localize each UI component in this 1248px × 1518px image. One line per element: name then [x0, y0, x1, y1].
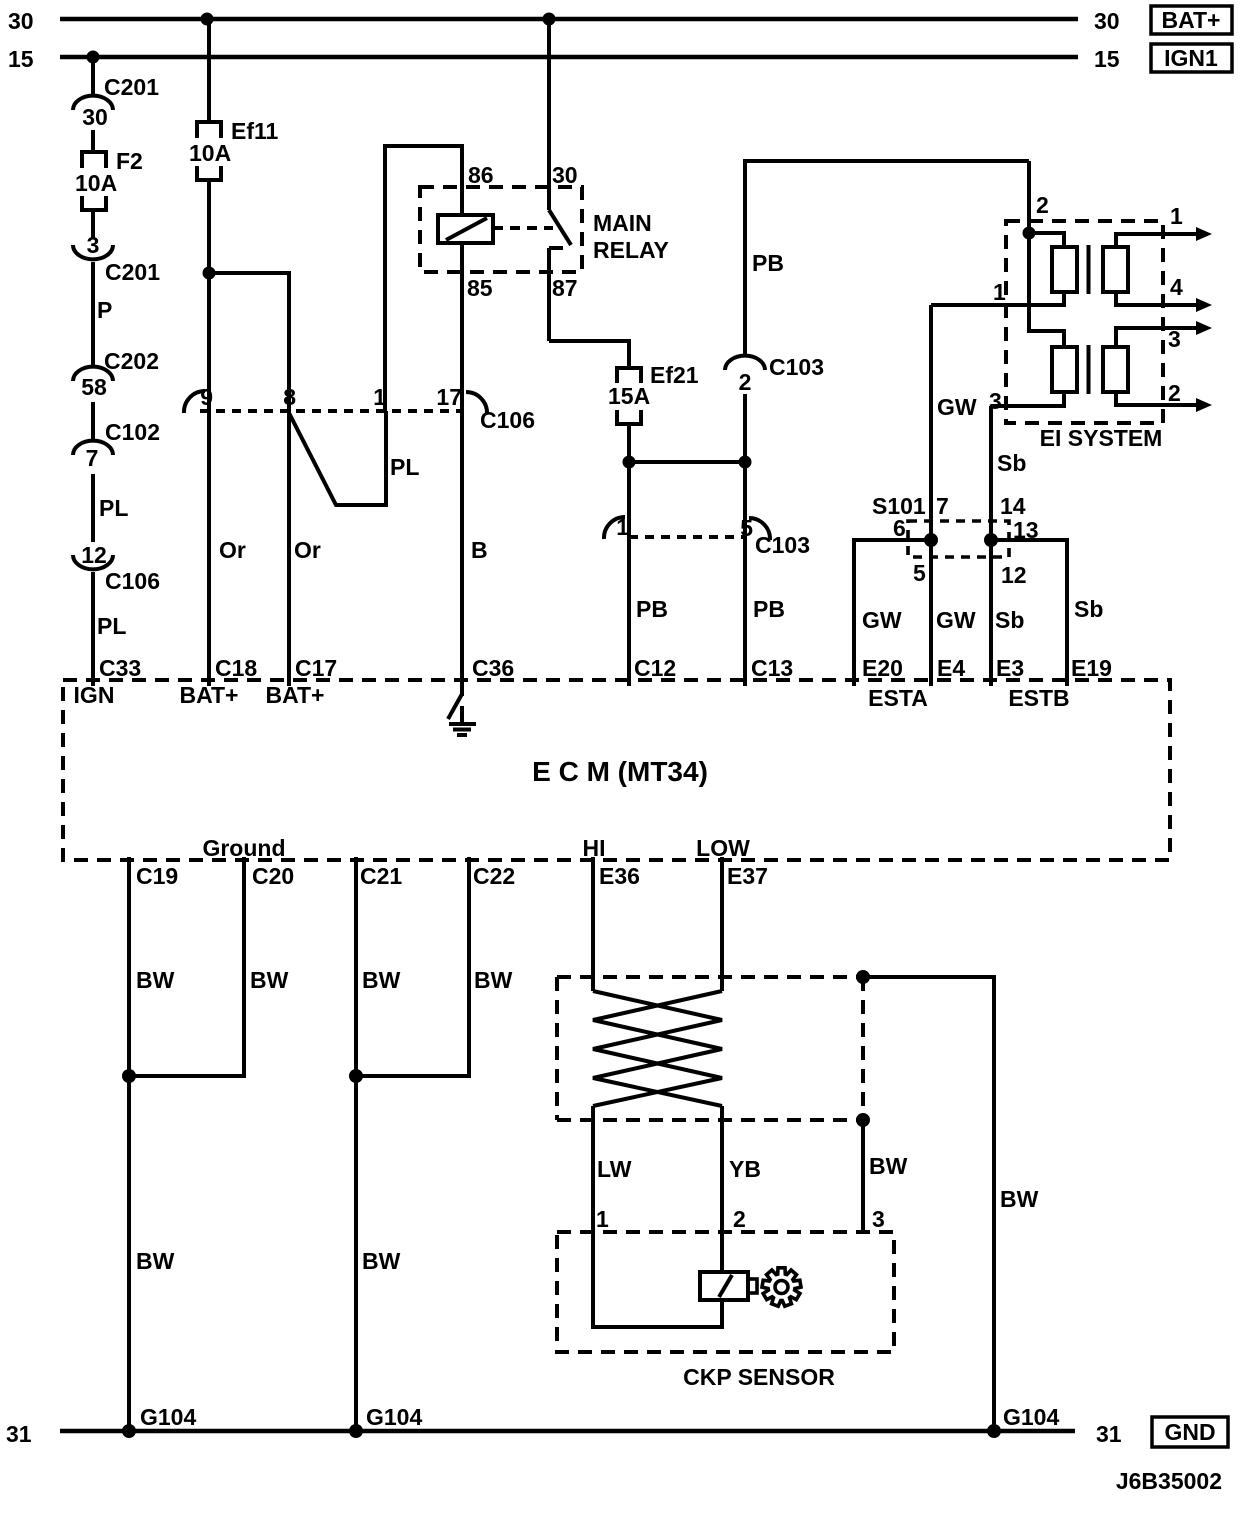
wire coil1 primary to EI pin 1 [931, 292, 1064, 305]
svg-text:C202: C202 [104, 348, 159, 374]
wire label B: C106-17 to ECM C36 [460, 411, 464, 683]
wire GW: S101 to ECM E4 [929, 540, 933, 686]
svg-text:P: P [97, 297, 112, 323]
wire BW: shield to G104 [863, 977, 994, 1431]
wire C106-1 up and over to relay coil 86 [385, 146, 462, 411]
wire jog C106-8 to C106-1 lower side [289, 411, 386, 505]
svg-text:BW: BW [136, 1248, 175, 1274]
svg-text:31: 31 [1096, 1421, 1122, 1447]
wire CKP pin 1 to sensor coil [593, 1232, 722, 1327]
wire PB: C103-1 to ECM C12 [627, 537, 631, 686]
wire BW: C22 joins C21 [356, 857, 469, 1076]
svg-text:ESTA: ESTA [868, 685, 928, 711]
svg-text:RELAY: RELAY [593, 237, 669, 263]
junction dot Ef11 branch [203, 267, 216, 280]
svg-text:3: 3 [872, 1206, 885, 1232]
svg-text:7: 7 [86, 445, 99, 471]
svg-text:BW: BW [362, 967, 401, 993]
svg-text:GW: GW [936, 607, 976, 633]
svg-text:1: 1 [596, 1206, 609, 1232]
svg-text:PB: PB [753, 596, 785, 622]
svg-text:C106: C106 [105, 568, 160, 594]
svg-text:Sb: Sb [997, 450, 1026, 476]
ground symbol at C36 [448, 683, 476, 735]
svg-text:5: 5 [913, 560, 926, 586]
relay switch blade [549, 210, 571, 245]
ignition coil 1 primary [1052, 247, 1077, 292]
wire junction to C103 row pin 5 [743, 462, 747, 537]
arrow spark 2 [1196, 398, 1212, 412]
svg-text:F2: F2 [116, 148, 143, 174]
wire LW to CKP pin 1 [591, 1106, 595, 1232]
svg-text:2: 2 [1168, 380, 1181, 406]
svg-text:3: 3 [87, 232, 100, 258]
svg-text:G104: G104 [1003, 1404, 1059, 1430]
wire PL: C102-7 to C106-12 [91, 474, 95, 542]
GND box [1152, 1417, 1228, 1447]
svg-text:C19: C19 [136, 863, 178, 889]
connector C103 row pins 1 5 [604, 514, 810, 558]
wire coil2 primary to EI pin 3 [991, 392, 1064, 406]
bus 30 (BAT+) [60, 17, 1078, 22]
svg-text:Sb: Sb [995, 607, 1024, 633]
wire coil1 secondary to spark 4 [1116, 292, 1198, 305]
junction dot G104 shield [987, 1424, 1001, 1438]
junction dot S101 left [924, 533, 938, 547]
wire Sb: S101 to ECM E19 [991, 540, 1067, 686]
svg-text:E37: E37 [727, 863, 768, 889]
svg-text:6: 6 [893, 515, 906, 541]
svg-text:PL: PL [99, 495, 128, 521]
wire C202-58 to C102-7 [91, 402, 95, 442]
svg-text:14: 14 [1000, 493, 1026, 519]
svg-text:Sb: Sb [1074, 596, 1103, 622]
svg-text:2: 2 [1036, 192, 1049, 218]
svg-text:BW: BW [1000, 1186, 1039, 1212]
svg-text:E36: E36 [599, 863, 640, 889]
svg-text:IGN1: IGN1 [1164, 45, 1218, 71]
svg-text:C20: C20 [252, 863, 294, 889]
svg-text:ESTB: ESTB [1008, 685, 1069, 711]
svg-text:17: 17 [436, 384, 462, 410]
fuse Ef11 10A [189, 118, 279, 180]
wire junction to C103 row pin 1 [627, 462, 631, 537]
shield dashed box [557, 977, 863, 1120]
svg-text:BW: BW [362, 1248, 401, 1274]
svg-text:C201: C201 [104, 74, 159, 100]
wire bus30 to relay switch 30 [547, 19, 551, 210]
svg-text:PB: PB [636, 596, 668, 622]
svg-text:2: 2 [739, 369, 752, 395]
svg-text:31: 31 [6, 1421, 32, 1447]
wire PB: EI feed to C103 pin 2 [745, 161, 1029, 357]
wire relay 87 to Ef21 [549, 341, 629, 367]
svg-text:Or: Or [294, 537, 321, 563]
wire bus30 to fuse Ef11 [207, 19, 211, 121]
ignition coil 2 secondary [1103, 347, 1128, 392]
wire branch to C106 pin 8 [209, 273, 289, 411]
wire C201-30 to fuse F2 [91, 130, 95, 151]
wire junction to junction [629, 460, 745, 464]
junction dot C19/C20 [122, 1069, 136, 1083]
svg-text:30: 30 [1094, 8, 1120, 34]
bus 15 (IGN1) [60, 55, 1078, 60]
svg-text:E19: E19 [1071, 655, 1112, 681]
connector C102 pin 7 [73, 419, 160, 471]
relay coil [438, 215, 493, 243]
CKP sensor dashed box [557, 1232, 894, 1352]
IGN1 box [1151, 44, 1232, 72]
svg-text:BW: BW [136, 967, 175, 993]
svg-text:C33: C33 [99, 655, 141, 681]
svg-text:C21: C21 [360, 863, 402, 889]
svg-text:30: 30 [82, 104, 108, 130]
svg-text:BAT+: BAT+ [1162, 7, 1221, 33]
BAT+ box [1151, 6, 1232, 34]
svg-text:7: 7 [936, 493, 949, 519]
svg-text:C102: C102 [105, 419, 160, 445]
svg-text:YB: YB [729, 1156, 761, 1182]
junction dot C12 branch [623, 456, 636, 469]
wire BW: shield drain to CKP pin 3 [861, 1120, 865, 1232]
connector C106 pin 12 [73, 542, 160, 594]
coil 2 core [1087, 345, 1091, 394]
wire CKP pin 2 to sensor coil [720, 1232, 724, 1273]
arrow spark 3 [1196, 321, 1212, 335]
svg-text:15: 15 [8, 46, 34, 72]
svg-text:G104: G104 [140, 1404, 196, 1430]
svg-text:9: 9 [200, 384, 213, 410]
coil 1 core [1087, 245, 1091, 294]
wire coil2 secondary to spark 2 [1116, 392, 1198, 405]
svg-text:PL: PL [97, 613, 126, 639]
wire F2 to connector C201-3 [91, 210, 95, 238]
wire to coil1 primary top [1029, 233, 1064, 247]
svg-text:30: 30 [8, 8, 34, 34]
arrow spark 4 [1196, 298, 1212, 312]
relay link (dashed) [493, 226, 553, 230]
arrow spark 1 [1196, 227, 1212, 241]
connector C103 pin 2 [725, 354, 824, 395]
svg-text:PB: PB [752, 250, 784, 276]
wire bus15 to connector C201-30 [91, 57, 95, 97]
svg-text:Ef11: Ef11 [231, 118, 279, 144]
wire Sb: S101 to ECM E3 [989, 540, 993, 686]
wire Ef11 to C106 pin 9 [207, 180, 211, 411]
svg-text:GW: GW [937, 394, 977, 420]
svg-text:1: 1 [1170, 203, 1183, 229]
svg-text:Or: Or [219, 537, 246, 563]
wire GW: EI pin 1 down to S101 [929, 305, 933, 540]
bus 31 (GND) [60, 1429, 1075, 1434]
svg-text:15A: 15A [608, 383, 650, 409]
svg-text:BW: BW [869, 1153, 908, 1179]
svg-text:1: 1 [993, 279, 1006, 305]
junction dot bus30/Ef11 [201, 13, 214, 26]
junction dot C21/C22 [349, 1069, 363, 1083]
svg-text:BAT+: BAT+ [180, 682, 239, 708]
CKP sensor coil [700, 1272, 757, 1300]
svg-text:IGN: IGN [74, 682, 115, 708]
wire Ef21 to junction [627, 424, 631, 462]
junction dot EI pin 2 [1023, 227, 1036, 240]
wire GW: S101 to ECM E20 [854, 540, 931, 686]
svg-text:E3: E3 [996, 655, 1024, 681]
svg-text:12: 12 [1001, 562, 1027, 588]
svg-text:C36: C36 [472, 655, 514, 681]
wire BW: C21 to G104 [354, 857, 358, 1431]
svg-text:BW: BW [474, 967, 513, 993]
junction dot shield bottom right [856, 1113, 870, 1127]
svg-text:J6B35002: J6B35002 [1116, 1468, 1222, 1494]
MAIN RELAY label [593, 210, 669, 263]
connector C201 pin 3 [73, 232, 160, 285]
svg-text:E4: E4 [937, 655, 965, 681]
svg-text:C18: C18 [215, 655, 257, 681]
svg-text:PL: PL [390, 454, 419, 480]
ECM (MT34) dashed box [63, 680, 1170, 860]
svg-text:MAIN: MAIN [593, 210, 652, 236]
svg-text:10A: 10A [189, 140, 231, 166]
svg-text:C13: C13 [751, 655, 793, 681]
svg-text:C17: C17 [295, 655, 337, 681]
fuse Ef21 15A [608, 362, 699, 424]
CKP reluctor gear [762, 1268, 801, 1306]
wire C103-2 to junction [743, 394, 747, 462]
relay contact 87 [549, 248, 563, 341]
wire relay coil 85 down to C106-17 [460, 243, 464, 411]
wire PB: C103-5 to ECM C13 [743, 537, 747, 686]
svg-text:B: B [471, 537, 488, 563]
junction dot bus30/relay30 [543, 13, 556, 26]
splice S101 dashed box [908, 521, 1009, 557]
svg-text:EI SYSTEM: EI SYSTEM [1040, 425, 1163, 451]
wire BW: C20 joins C19 [129, 857, 244, 1076]
svg-text:G104: G104 [366, 1404, 422, 1430]
svg-text:86: 86 [468, 162, 494, 188]
svg-text:12: 12 [81, 542, 107, 568]
svg-text:GND: GND [1164, 1419, 1215, 1445]
svg-text:87: 87 [552, 275, 578, 301]
svg-text:10A: 10A [75, 170, 117, 196]
svg-text:C103: C103 [755, 532, 810, 558]
junction dot S101 right [984, 533, 998, 547]
ignition coil 2 primary [1052, 347, 1077, 392]
svg-text:2: 2 [733, 1206, 746, 1232]
wire Sb: EI pin 3 down to S101 [989, 406, 993, 540]
junction dot C13 branch [739, 456, 752, 469]
svg-text:C106: C106 [480, 407, 535, 433]
twisted pair LW/YB [593, 991, 722, 1106]
wire YB to CKP pin 2 [720, 1106, 724, 1232]
fuse F2 10A [75, 148, 143, 210]
svg-text:15: 15 [1094, 46, 1120, 72]
svg-text:C103: C103 [769, 354, 824, 380]
junction dot bus15/C201 [87, 51, 100, 64]
wire PB down to coil2 [1029, 233, 1064, 347]
wire P: C201-3 to C202-58 [91, 262, 95, 368]
svg-text:LW: LW [597, 1156, 632, 1182]
svg-text:C12: C12 [634, 655, 676, 681]
svg-text:58: 58 [81, 374, 107, 400]
wire Or: C106-8 to ECM C17 [287, 411, 291, 686]
connector C202 pin 58 [73, 348, 159, 400]
wire Or: C106-9 to ECM C18 [207, 411, 211, 686]
junction dot shield top right [856, 970, 870, 984]
junction dot G104 C21 [349, 1424, 363, 1438]
connector C106 row pins 9 8 1 17 [184, 384, 535, 433]
wire coil1 secondary to spark 1 [1116, 234, 1198, 247]
wire BW: C19 to G104 [127, 857, 131, 1431]
svg-text:Ef21: Ef21 [650, 362, 699, 388]
svg-text:E C M (MT34): E C M (MT34) [532, 756, 708, 787]
svg-text:4: 4 [1170, 274, 1183, 300]
EI system dashed box [1006, 221, 1163, 423]
svg-text:C22: C22 [473, 863, 515, 889]
svg-text:3: 3 [1168, 326, 1181, 352]
svg-text:E20: E20 [862, 655, 903, 681]
wire YB: E37 to twisted pair [720, 857, 724, 991]
main relay dashed box [420, 187, 582, 272]
wire LW: E36 to twisted pair [591, 857, 595, 991]
svg-text:30: 30 [552, 162, 578, 188]
svg-text:CKP SENSOR: CKP SENSOR [683, 1364, 835, 1390]
svg-text:C201: C201 [105, 259, 160, 285]
wire PL: C106-12 to ECM C33 [91, 572, 95, 686]
connector C201 pin 30 [73, 74, 159, 130]
svg-text:85: 85 [467, 275, 493, 301]
wire PB into EI pin 2 [1027, 161, 1031, 233]
svg-text:8: 8 [283, 384, 296, 410]
svg-text:BAT+: BAT+ [266, 682, 325, 708]
junction dot G104 C19 [122, 1424, 136, 1438]
svg-text:BW: BW [250, 967, 289, 993]
ignition coil 1 secondary [1103, 247, 1128, 292]
svg-text:GW: GW [862, 607, 902, 633]
wire coil2 secondary to spark 3 [1116, 328, 1198, 347]
